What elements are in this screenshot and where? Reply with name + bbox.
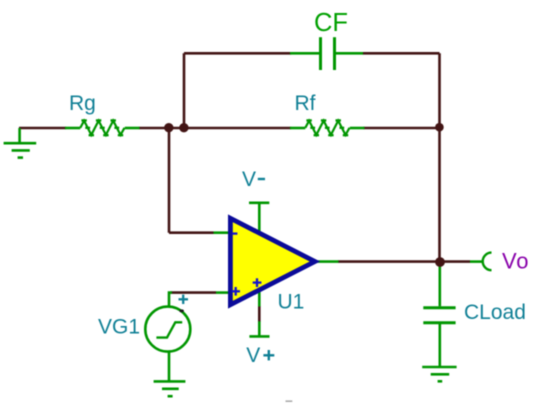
svg-text:V: V <box>242 168 256 191</box>
svg-text:Rg: Rg <box>69 92 96 115</box>
svg-text:VG1: VG1 <box>98 316 140 339</box>
svg-text:Vo: Vo <box>502 249 529 274</box>
svg-text:Rf: Rf <box>295 92 316 115</box>
svg-text:CLoad: CLoad <box>464 301 526 324</box>
svg-text:V: V <box>246 344 260 367</box>
svg-text:CF: CF <box>314 9 348 37</box>
svg-text:U1: U1 <box>278 291 305 314</box>
